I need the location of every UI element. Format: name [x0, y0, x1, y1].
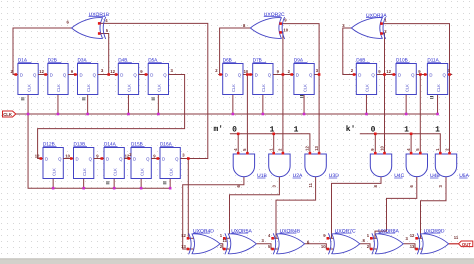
svg-text:12: 12: [305, 145, 310, 150]
junction D10B.Q tap: [419, 73, 422, 76]
svg-text:CLK: CLK: [404, 84, 409, 92]
junction clk D1A: [27, 113, 30, 116]
junction UXOR5A pin bottom: [223, 248, 226, 251]
xor gate UXOR7C: [328, 228, 359, 254]
svg-text:CLK: CLK: [139, 168, 144, 176]
wire U4C output to UXOR7C pin9: [332, 175, 382, 238]
svg-text:D15B: D15B: [131, 142, 143, 147]
junction D1A.D input: [14, 73, 17, 76]
xor gate UXOR3A: [351, 13, 387, 39]
svg-text:12: 12: [39, 69, 44, 74]
svg-text:11: 11: [454, 235, 459, 240]
initial condition mark D15B: [163, 182, 166, 184]
wire CLK rail feed to row2: [28, 114, 170, 188]
wire input stubs UXOR7C: [328, 237, 334, 239]
svg-text:D: D: [76, 156, 79, 161]
svg-text:CLK: CLK: [82, 168, 87, 176]
junction UXOR8A pin top: [370, 237, 373, 240]
wire tap D10B.Q to U4B pin5: [419, 75, 421, 154]
junction D4B.D input: [115, 73, 118, 76]
svg-text:13: 13: [410, 244, 415, 249]
wire D14A.Q to D15B.D: [124, 158, 131, 160]
wire m' bit0 to U1B pin4: [237, 134, 239, 153]
svg-text:10: 10: [244, 69, 249, 74]
junction U1B pin5: [246, 152, 249, 155]
junction D8B.D input: [353, 73, 356, 76]
flip-flop D9A: [289, 58, 318, 95]
wire XOR3A pin2 tap to U4C pin10: [382, 34, 385, 154]
wire XOR3A output to D8B.D: [343, 28, 357, 75]
initial condition mark D11A: [430, 97, 433, 99]
wire clk drop D7B: [262, 95, 264, 115]
xor gate UXOR2C: [250, 12, 285, 39]
svg-text:CLK: CLK: [51, 168, 56, 176]
wire D2B.Q to D3A.D: [68, 74, 77, 76]
svg-text:12: 12: [110, 69, 115, 74]
junction D16A.D input: [157, 157, 160, 160]
wire clk drop D1A: [27, 95, 29, 115]
xor gate UXOR4B: [273, 228, 304, 254]
junction D2B.D input: [44, 73, 47, 76]
wire tap D6B.Q to U1B pin5: [246, 75, 248, 154]
wire D4B.Q to D5A.D: [139, 74, 149, 76]
junction clk D11A: [436, 113, 439, 116]
wire clk drop D4B: [127, 95, 129, 115]
svg-text:0: 0: [371, 125, 376, 134]
junction UXOR8A pin bottom: [370, 248, 373, 251]
wire input stubs UXOR4D: [188, 237, 194, 239]
wire UXOR5A out to UXOR4B pin5: [256, 244, 272, 249]
wire D15B.Q to D16A.D: [151, 158, 160, 160]
junction U4C pin10: [383, 152, 386, 155]
svg-text:D1A: D1A: [18, 58, 28, 63]
svg-text:CLK: CLK: [56, 84, 61, 92]
flip-flop D12B: [39, 142, 68, 179]
junction clk D7B: [262, 113, 265, 116]
junction XOR3A pin1: [380, 22, 383, 25]
junction D8B.Q tap: [383, 73, 386, 76]
xor gate UXOR9D: [417, 228, 448, 254]
svg-text:D: D: [255, 72, 258, 77]
svg-text:CLK: CLK: [261, 84, 266, 92]
svg-text:D: D: [162, 156, 165, 161]
junction U4C pin9: [374, 152, 377, 155]
wire XOR2C output to D6B.D: [220, 28, 253, 75]
flip-flop D4B: [114, 58, 143, 95]
wire clk drop D13B: [83, 179, 85, 189]
svg-text:D: D: [45, 156, 48, 161]
flip-flop D10B: [392, 58, 421, 95]
svg-text:D: D: [150, 72, 153, 77]
svg-text:11: 11: [223, 238, 228, 243]
port CLK: [3, 111, 16, 117]
initial condition mark D5A: [152, 98, 155, 100]
svg-text:CLK: CLK: [157, 84, 162, 92]
svg-text:D11A: D11A: [427, 58, 439, 63]
svg-text:D3A: D3A: [78, 58, 88, 63]
wire XOR1B output to D1A.D: [13, 28, 72, 75]
svg-text:D: D: [50, 72, 53, 77]
svg-text:D14A: D14A: [104, 142, 117, 147]
svg-text:13: 13: [314, 145, 319, 150]
svg-text:10: 10: [321, 244, 326, 249]
junction UXOR7C pin bottom: [327, 248, 330, 251]
wire D3A.Q to D4B.D: [98, 74, 119, 76]
junction D3A.D input: [74, 73, 77, 76]
flip-flop D2B: [43, 58, 72, 95]
svg-text:D: D: [398, 72, 401, 77]
wire U2A output to UXOR5A pin1: [230, 175, 280, 238]
wire clk drop D15B: [140, 179, 142, 189]
svg-text:CLK: CLK: [168, 168, 173, 176]
and gate U5A: [435, 154, 469, 179]
svg-text:1: 1: [435, 125, 440, 134]
junction clk D16A: [169, 187, 172, 190]
wire D13B.Q to D14A.D: [94, 158, 104, 160]
flip-flop D5A: [144, 58, 173, 95]
svg-text:D8B: D8B: [356, 58, 365, 63]
svg-text:D: D: [20, 72, 23, 77]
svg-text:D: D: [106, 156, 109, 161]
svg-text:D7B: D7B: [253, 58, 262, 63]
junction clk D5A: [157, 113, 160, 116]
svg-text:CLK: CLK: [86, 84, 91, 92]
junction U2A pin1: [272, 152, 275, 155]
svg-text:13: 13: [181, 244, 186, 249]
svg-text:1: 1: [270, 125, 275, 134]
junction m' bit0 on constant line: [237, 133, 240, 136]
wire k' constant line to U5A pin1: [360, 134, 441, 153]
svg-text:1: 1: [294, 125, 299, 134]
flip-flop D3A: [73, 58, 102, 95]
svg-text:D16A: D16A: [160, 142, 173, 147]
flip-flop D7B: [248, 58, 277, 95]
svg-text:CLK: CLK: [231, 84, 236, 92]
wire UXOR9D out to OUT port: [449, 243, 459, 245]
wire clk drop D16A: [169, 179, 171, 189]
svg-text:OUT: OUT: [462, 242, 471, 247]
svg-text:CLK: CLK: [436, 84, 441, 92]
xor gate UXOR4D: [189, 228, 220, 254]
junction D7B.D input: [249, 73, 252, 76]
junction D14A.D input: [101, 157, 104, 160]
junction XOR1B pin5: [98, 32, 101, 35]
svg-text:CLK: CLK: [127, 84, 132, 92]
junction D11A.Q tap: [448, 73, 451, 76]
svg-text:1: 1: [404, 125, 409, 134]
wire U4B output to UXOR8A pin1: [375, 175, 417, 238]
svg-text:D5A: D5A: [148, 58, 158, 63]
junction UXOR4B pin bottom: [271, 248, 274, 251]
wire D11A.Q stub: [448, 74, 450, 76]
svg-text:12: 12: [410, 233, 415, 238]
xor gate UXOR8A: [372, 228, 403, 254]
junction D6B.D input: [219, 73, 222, 76]
junction U2A pin2: [282, 152, 285, 155]
wire UXOR4D out to UXOR5A pin2: [220, 244, 224, 249]
svg-text:12: 12: [181, 233, 186, 238]
wire clk drop D9A: [303, 95, 305, 115]
initial condition mark D3A: [82, 98, 85, 100]
junction UXOR4D pin bottom: [187, 248, 190, 251]
junction U4B pin5: [419, 152, 422, 155]
junction clk D13B: [82, 187, 85, 190]
wire k' bit1 to U4B pin4: [410, 134, 412, 153]
initial condition mark D1A: [21, 98, 24, 100]
svg-text:D: D: [296, 72, 299, 77]
svg-text:10: 10: [283, 27, 288, 32]
wire D8B.Q to D10B.D: [377, 74, 396, 76]
wire D10B.Q to D11A.D: [416, 74, 427, 76]
wire clk drop D5A: [157, 95, 159, 115]
wire D5A.Q to D12B.D: [38, 75, 185, 159]
and gate U3D: [305, 154, 339, 179]
svg-text:D: D: [120, 72, 123, 77]
wire input stubs UXOR8A: [371, 237, 377, 239]
junction U3D pin13: [318, 152, 321, 155]
flip-flop D15B: [127, 142, 156, 179]
wire XOR1B pin5 from D3A.Q: [99, 34, 109, 75]
wire clk drop D12B: [52, 179, 54, 189]
junction XOR3A pin2: [380, 32, 383, 35]
and gate U1B: [233, 154, 267, 179]
flip-flop D13B: [69, 142, 98, 179]
svg-text:CLK: CLK: [26, 84, 31, 92]
wire XOR2C pin10 tap to U2A pin2: [281, 32, 283, 153]
junction k' bit1 on constant line: [410, 133, 413, 136]
svg-text:10: 10: [65, 153, 70, 158]
wire U3D output to UXOR4B pin4: [276, 175, 316, 238]
svg-text:D4B: D4B: [118, 58, 127, 63]
junction U4B pin4: [410, 152, 413, 155]
svg-text:D6B: D6B: [223, 58, 232, 63]
port OUT: [459, 241, 473, 247]
junction UXOR9D pin top: [415, 237, 418, 240]
junction UXOR5A pin top: [223, 237, 226, 240]
junction clk D2B: [57, 113, 60, 116]
wire D6B.Q to D7B.D: [243, 74, 253, 76]
junction UXOR4D pin top: [187, 237, 190, 240]
wire UXOR7C out to UXOR8A pin2: [360, 244, 372, 249]
svg-text:CLK: CLK: [365, 84, 370, 92]
svg-text:D: D: [133, 156, 136, 161]
wire m' bit1 to U2A pin1: [273, 134, 275, 153]
junction clk D4B: [127, 113, 130, 116]
wire k' bit0 to U4C pin9: [374, 134, 376, 153]
junction D12B.D input: [40, 157, 43, 160]
junction D7B.Q tap: [282, 73, 285, 76]
svg-text:CLK: CLK: [112, 168, 117, 176]
and gate U2A: [269, 154, 303, 179]
junction D5A.D input: [145, 73, 148, 76]
svg-text:0: 0: [232, 125, 237, 134]
initial condition mark D9A: [300, 96, 303, 98]
and gate U4B: [406, 154, 440, 179]
initial condition mark D14A: [106, 182, 109, 184]
flip-flop D16A: [156, 142, 185, 179]
junction m' bit1 on constant line: [272, 133, 275, 136]
junction D16A.Q branch: [187, 157, 190, 160]
wire input stubs UXOR5A: [224, 237, 230, 239]
junction clk D6B: [232, 113, 235, 116]
wire U1B output to UXOR4D pin13: [183, 175, 244, 249]
xor gate UXOR1B: [72, 12, 110, 39]
junction clk D10B: [405, 113, 408, 116]
svg-text:10: 10: [379, 145, 384, 150]
wire clk drop D2B: [57, 95, 59, 115]
svg-text:k': k': [346, 125, 356, 134]
wire clk drop D10B: [405, 95, 407, 115]
wire input stubs UXOR9D: [417, 237, 423, 239]
wire D12B.Q to D13B.D: [63, 158, 73, 160]
svg-text:m': m': [214, 125, 224, 134]
wire node D16A.Q branch to UXOR4D pin12: [187, 159, 189, 239]
flip-flop D8B: [352, 58, 381, 95]
svg-text:12: 12: [386, 69, 391, 74]
junction XOR2C pin10: [279, 31, 282, 34]
junction D11A.D input: [424, 73, 427, 76]
wire clk drop D3A: [87, 95, 89, 115]
junction clk D9A: [303, 113, 306, 116]
junction UXOR9D pin bottom: [415, 248, 418, 251]
junction U1B pin4: [237, 152, 240, 155]
junction UXOR7C pin top: [327, 237, 330, 240]
flip-flop D1A: [13, 58, 42, 95]
junction UXOR4B pin top: [271, 237, 274, 240]
wire XOR2C pin9 tap to U3D pin13: [281, 24, 320, 154]
junction D13B.D input: [70, 157, 73, 160]
svg-text:CLK: CLK: [3, 112, 13, 117]
svg-text:D: D: [358, 72, 361, 77]
svg-text:D: D: [80, 72, 83, 77]
wire clk drop D11A: [437, 95, 439, 115]
junction clk D15B: [140, 187, 143, 190]
svg-text:D10B: D10B: [396, 58, 408, 63]
wire XOR1B pin4 net from D16A.Q: [99, 23, 208, 158]
flip-flop D14A: [100, 142, 129, 179]
wire UXOR8A out to UXOR9D pin13: [403, 244, 416, 249]
wire clk drop D8B: [365, 95, 367, 115]
junction U5A pin1: [439, 152, 442, 155]
wire UXOR4B out to UXOR7C pin10: [305, 244, 328, 249]
junction clk D8B: [365, 113, 368, 116]
xor gate UXOR5A: [225, 228, 256, 254]
wire input stubs UXOR4B: [273, 237, 279, 239]
flip-flop D6B: [218, 58, 247, 95]
junction clk D14A: [113, 187, 116, 190]
junction D9A.D input: [290, 73, 293, 76]
svg-text:D9A: D9A: [294, 58, 304, 63]
and gate U4C: [370, 154, 404, 179]
flip-flop D11A: [423, 58, 452, 95]
wire D7B.Q to D9A.D: [273, 74, 294, 76]
junction D9A.Q tap: [318, 73, 321, 76]
wire CLK rail row1: [16, 113, 438, 115]
svg-text:11: 11: [308, 182, 313, 187]
junction D6B.Q tap: [246, 73, 249, 76]
junction D15B.D input: [128, 157, 131, 160]
svg-text:D13B: D13B: [74, 142, 86, 147]
junction U5A pin2: [448, 152, 451, 155]
wire U5A output to UXOR9D pin12: [421, 175, 447, 238]
junction XOR1B pin4: [98, 22, 101, 25]
junction k' bit0 on constant line: [374, 133, 377, 136]
wire clk drop D6B: [232, 95, 234, 115]
svg-text:D2B: D2B: [48, 58, 57, 63]
junction clk D3A: [86, 113, 89, 116]
svg-text:CLK: CLK: [302, 84, 307, 92]
wire XOR3A pin1 tap to U5A pin2: [382, 24, 450, 154]
svg-text:D: D: [429, 72, 432, 77]
wire m' constant line to U3D pin12: [230, 134, 310, 153]
junction clk D12B: [52, 187, 55, 190]
junction U3D pin12: [309, 152, 312, 155]
svg-text:12: 12: [35, 153, 40, 158]
junction D3A.Q tap: [107, 73, 110, 76]
svg-text:D12B: D12B: [43, 142, 55, 147]
junction XOR2C pin9: [279, 22, 282, 25]
wire D9A.Q stub: [314, 74, 319, 76]
junction D10B.D input: [393, 73, 396, 76]
wire D1A.Q to D2B.D: [38, 74, 48, 76]
svg-text:D: D: [225, 72, 228, 77]
wire clk drop D14A: [113, 179, 115, 189]
